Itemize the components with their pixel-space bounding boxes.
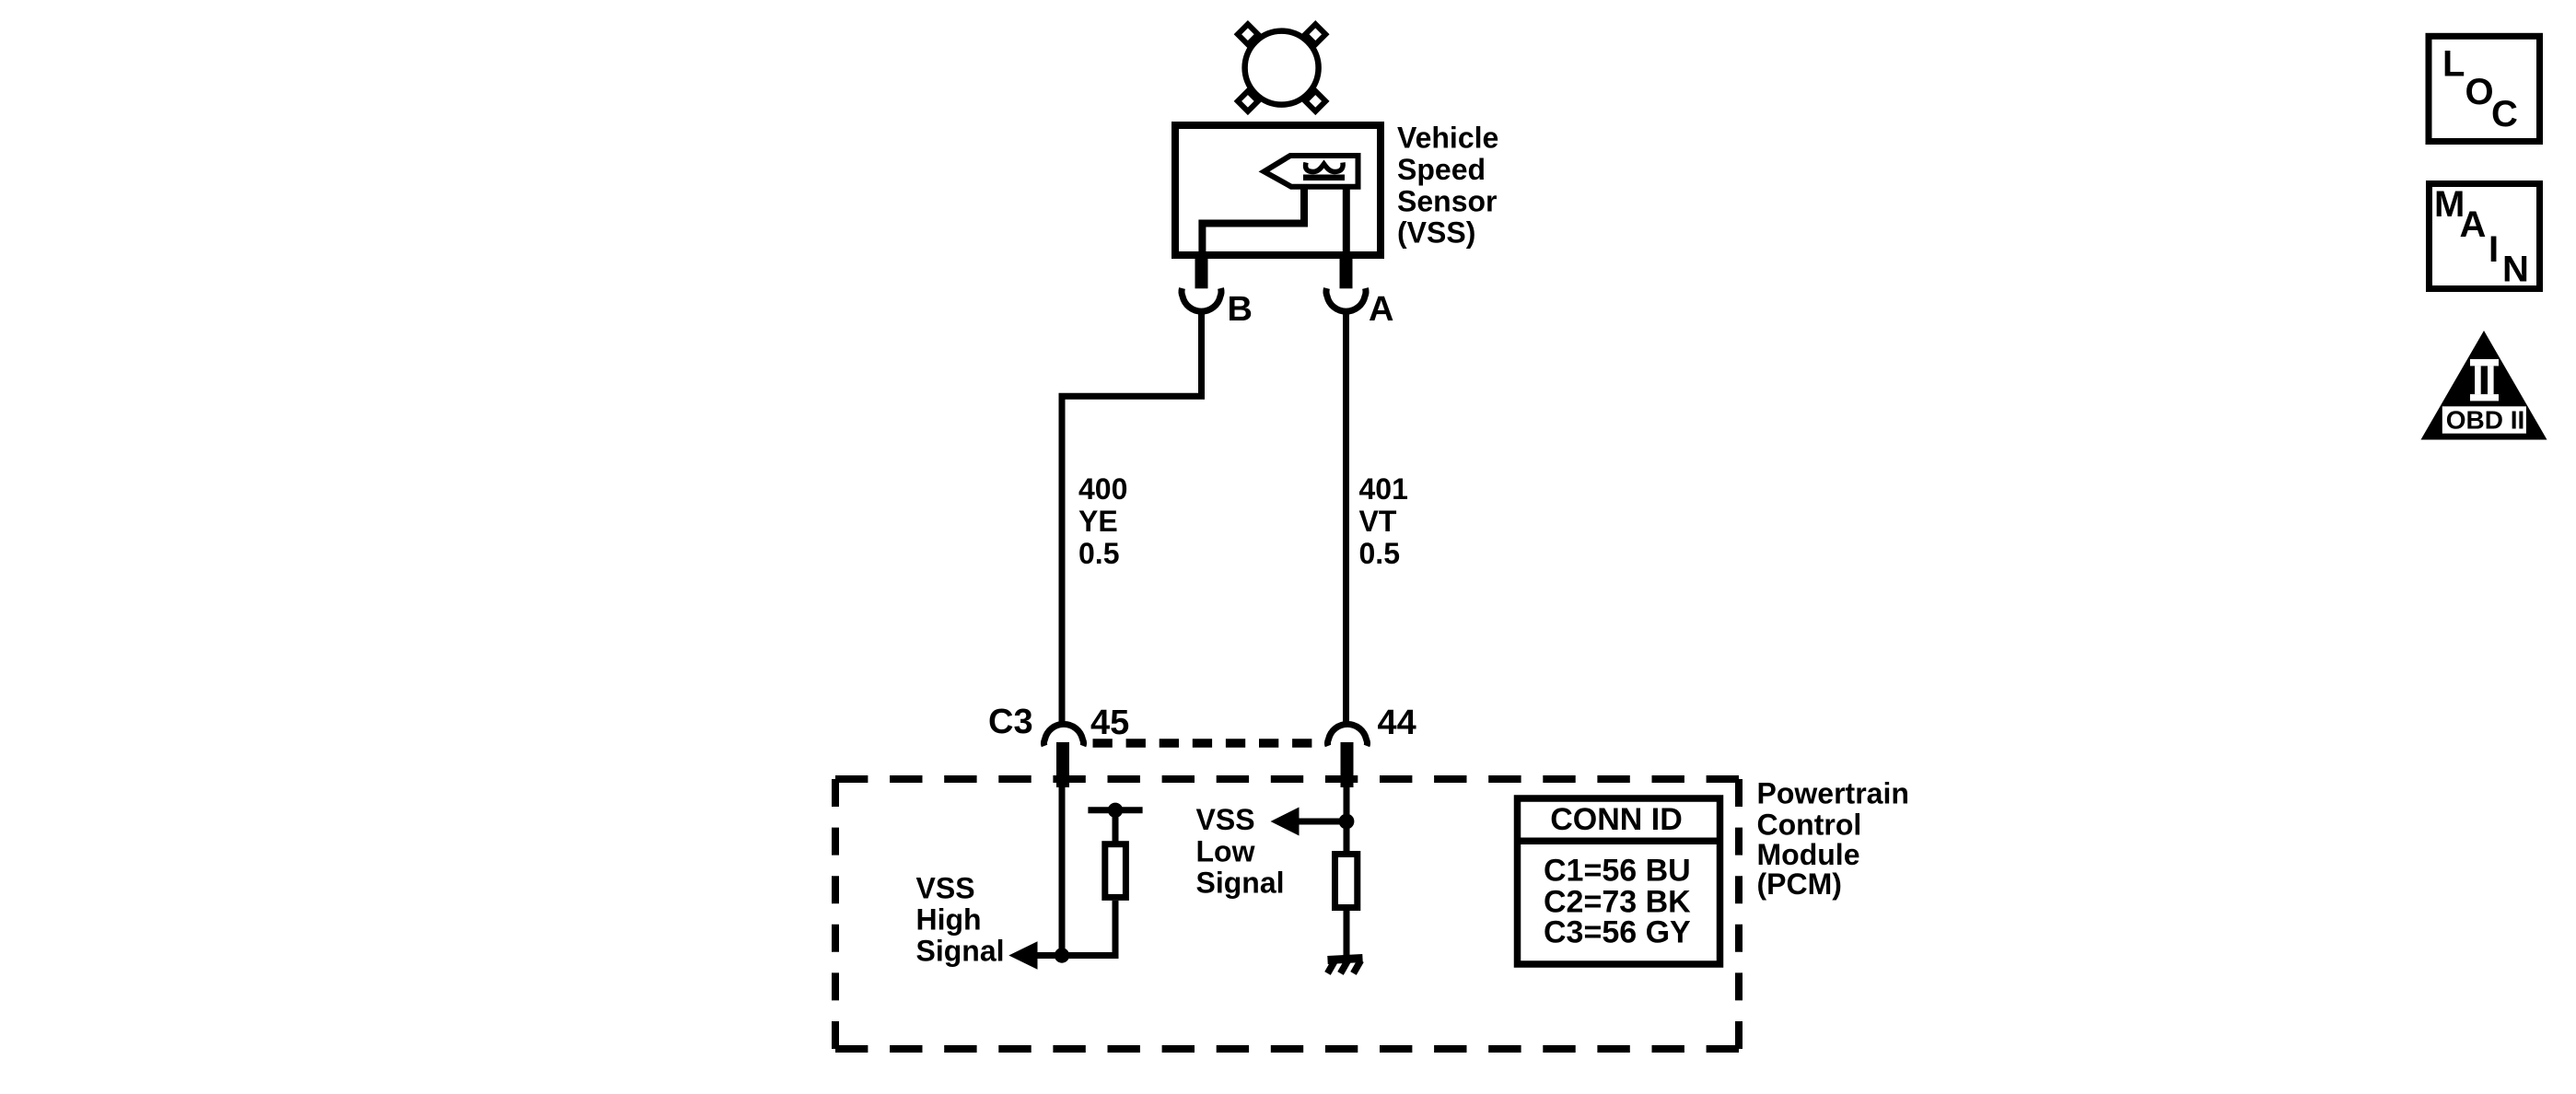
svg-text:I: I: [2489, 229, 2499, 270]
svg-text:44: 44: [1378, 704, 1416, 742]
svg-text:C1=56 BU: C1=56 BU: [1544, 854, 1691, 889]
svg-text:401: 401: [1359, 472, 1408, 506]
svg-text:O: O: [2465, 72, 2494, 112]
svg-text:45: 45: [1090, 704, 1129, 742]
svg-text:High: High: [916, 903, 982, 937]
svg-text:Vehicle: Vehicle: [1397, 122, 1498, 155]
svg-text:A: A: [2460, 204, 2487, 245]
svg-text:CONN ID: CONN ID: [1550, 802, 1683, 837]
svg-text:0.5: 0.5: [1078, 537, 1119, 570]
svg-text:A: A: [1369, 290, 1393, 329]
svg-text:Powertrain: Powertrain: [1757, 777, 1909, 810]
svg-text:N: N: [2502, 250, 2529, 290]
svg-text:Module: Module: [1757, 838, 1860, 871]
svg-text:Low: Low: [1196, 835, 1255, 868]
svg-text:OBD II: OBD II: [2446, 406, 2525, 435]
svg-text:(VSS): (VSS): [1397, 216, 1475, 250]
svg-text:C: C: [2491, 94, 2518, 134]
svg-text:0.5: 0.5: [1359, 537, 1400, 570]
svg-text:(PCM): (PCM): [1757, 867, 1842, 901]
svg-text:L: L: [2442, 44, 2465, 85]
svg-text:Signal: Signal: [1196, 867, 1285, 900]
svg-text:Sensor: Sensor: [1397, 185, 1497, 218]
svg-text:Signal: Signal: [916, 935, 1005, 968]
svg-text:Speed: Speed: [1397, 153, 1486, 186]
svg-text:B: B: [1228, 290, 1253, 329]
svg-text:VSS: VSS: [1196, 803, 1255, 836]
svg-text:VSS: VSS: [916, 872, 975, 905]
svg-text:VT: VT: [1359, 505, 1397, 538]
svg-text:C3=56 GY: C3=56 GY: [1544, 915, 1691, 950]
svg-text:C3: C3: [988, 703, 1033, 741]
svg-text:Control: Control: [1757, 809, 1862, 842]
svg-text:YE: YE: [1078, 505, 1118, 538]
svg-text:400: 400: [1078, 472, 1127, 506]
